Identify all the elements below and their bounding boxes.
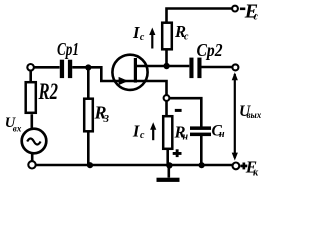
svg-text:R2: R2 — [38, 79, 58, 105]
svg-text:Ср2: Ср2 — [197, 40, 223, 60]
svg-text:c: c — [184, 32, 189, 43]
svg-text:н: н — [219, 129, 225, 140]
svg-text:I: I — [132, 23, 140, 42]
svg-text:3: 3 — [103, 113, 110, 125]
svg-text:c: c — [140, 130, 145, 141]
svg-text:I: I — [132, 121, 140, 140]
svg-text:вых: вых — [247, 110, 262, 120]
svg-text:Ср1: Ср1 — [57, 39, 79, 59]
svg-text:н: н — [183, 132, 189, 143]
svg-text:c: c — [140, 32, 145, 43]
svg-text:вх: вх — [13, 124, 22, 134]
svg-text:c: c — [254, 12, 259, 23]
